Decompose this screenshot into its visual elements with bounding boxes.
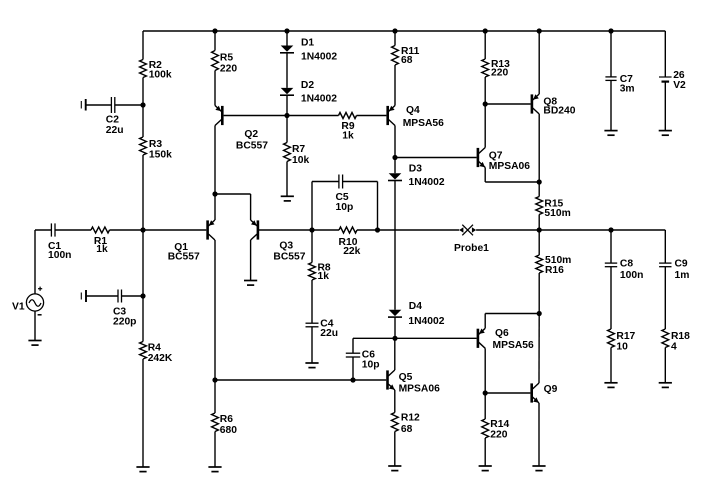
wire R4 bottom lead (142, 359, 144, 467)
svg-text:C8: C8 (620, 259, 633, 270)
label R1 value (94, 236, 108, 255)
svg-text:R4: R4 (148, 342, 161, 353)
probe Probe1 left arrow (459, 227, 463, 232)
resistor R1 (91, 227, 110, 233)
label C2 value (106, 114, 124, 135)
label R17 value (616, 331, 635, 352)
node rail/D1 (284, 28, 289, 33)
battery V2 short plate (662, 80, 670, 82)
svg-text:1k: 1k (342, 131, 354, 142)
transistor Q1 BC557 (206, 220, 215, 240)
node output/C8 (608, 227, 613, 232)
label R12 value (401, 413, 420, 435)
wire to Q8 base (485, 103, 530, 105)
svg-text:C9: C9 (675, 259, 688, 270)
wire R13 top lead (484, 31, 486, 59)
wire R10 to probe (357, 229, 459, 231)
wire to Q7 base (395, 157, 477, 159)
wire R2 top lead (142, 31, 144, 60)
wire D2 cathode to base row (286, 95, 288, 115)
resistor R8 (309, 263, 316, 281)
transistor Q4 MPSA56 (386, 106, 395, 126)
wire C5 right leg (377, 182, 379, 231)
resistor R17 (608, 329, 615, 348)
label Q5 (399, 372, 440, 394)
node Q1c/R6 (212, 377, 217, 382)
label C5 value (336, 192, 354, 213)
resistor R16 (536, 255, 543, 273)
ground under Q9 (532, 466, 545, 471)
label V1 plus (38, 287, 42, 291)
label Q1 (168, 242, 200, 263)
wire C6 top lead (352, 338, 354, 353)
resistor R13 (482, 59, 489, 77)
wire Q9 collector up (538, 314, 540, 384)
resistor R15 (536, 197, 543, 215)
wire Q1 emitter up (214, 194, 216, 220)
capacitor C5 (339, 175, 343, 189)
diode D3 1N4002 (388, 173, 402, 180)
capacitor C6 (346, 353, 360, 357)
svg-text:D4: D4 (409, 301, 422, 312)
wire V1 to C1 (35, 229, 51, 231)
wire Q1 collector down (214, 240, 216, 380)
wire C8 top lead (610, 230, 612, 263)
resistor R18 (662, 329, 669, 348)
capacitor C4 (306, 323, 319, 327)
label R2 value (149, 60, 172, 80)
wire C9 top lead (664, 230, 666, 263)
svg-text:1k: 1k (96, 244, 108, 255)
resistor R14 (482, 419, 489, 438)
svg-text:22k: 22k (343, 246, 360, 257)
svg-text:Probe1: Probe1 (454, 243, 489, 254)
label C4 value (320, 318, 338, 339)
wire R11 top lead (394, 31, 396, 46)
wire V1 top lead (34, 230, 36, 294)
transistor Q6 MPSA56 (477, 328, 486, 348)
wire R6 top lead (214, 380, 216, 413)
label Probe1 (454, 243, 489, 254)
svg-text:C2: C2 (106, 114, 119, 125)
label Q7 (489, 151, 530, 173)
wire R17 bottom lead (610, 348, 612, 383)
label R3 value (149, 139, 172, 160)
svg-text:Q6: Q6 (495, 328, 509, 339)
transistor Q8 BD240 (531, 94, 540, 114)
svg-text:3m: 3m (620, 84, 635, 95)
wire D1 anode lead (286, 31, 288, 46)
node Q8c/R15/Q7e (537, 179, 542, 184)
wire Q8 collector down (538, 114, 540, 182)
svg-text:22u: 22u (106, 125, 124, 136)
wire Q7 emitter to R15 node (485, 181, 539, 183)
wire V2 bottom lead (664, 82, 666, 131)
wire Q6 emitter to R16 node (485, 313, 539, 315)
node diff pair tail (212, 191, 217, 196)
label D3 (409, 163, 445, 188)
svg-text:220: 220 (220, 63, 237, 74)
capacitor C1 (51, 223, 55, 236)
resistor R12 (391, 413, 398, 432)
svg-text:D3: D3 (409, 163, 422, 174)
svg-text:1N4002: 1N4002 (409, 177, 445, 188)
wire R5 top lead (214, 31, 216, 51)
svg-text:R7: R7 (292, 144, 305, 155)
svg-text:4: 4 (671, 341, 677, 352)
ground under R12 (388, 466, 401, 471)
wire C6 bottom lead (352, 357, 354, 380)
svg-text:V2: V2 (673, 80, 686, 91)
wire C9 to R18 (664, 267, 666, 329)
label D4 (408, 301, 444, 327)
wire C2 right lead (115, 104, 143, 106)
label R7 value (292, 144, 309, 166)
wire Q7 emitter down (484, 168, 486, 183)
svg-text:1N4002: 1N4002 (301, 94, 337, 105)
diode D2 1N4002 (280, 88, 294, 95)
label C9 value (675, 259, 690, 281)
node C6 bottom (350, 377, 355, 382)
svg-text:MPSA06: MPSA06 (489, 161, 530, 172)
label V2 (673, 70, 686, 91)
transistor Q3 BC557 (251, 220, 260, 240)
label Q6 (493, 328, 534, 351)
node D4/Q5c/Q6b (392, 336, 397, 341)
node R2/R3/C2 junction (140, 102, 145, 107)
wire Q3 base to feedback node (258, 229, 312, 231)
transistor Q5 MPSA06 (386, 370, 395, 390)
terminal tick C2 inner (85, 99, 87, 111)
resistor R6 (212, 413, 219, 432)
wire V2 top lead (664, 31, 666, 77)
wire probe to output caps (476, 229, 665, 231)
svg-text:BD240: BD240 (543, 106, 575, 117)
svg-text:100k: 100k (149, 69, 172, 80)
wire R2-R3 (142, 78, 144, 138)
wire R8 to C4 (311, 280, 313, 323)
transistor Q7 MPSA06 (477, 148, 486, 168)
node R16/Q6e/Q9c (537, 311, 542, 316)
wire C1 to R1 (55, 229, 91, 231)
label R13 value (491, 59, 510, 78)
capacitor C2 (111, 97, 114, 113)
svg-text:100n: 100n (620, 270, 643, 281)
svg-text:1k: 1k (318, 271, 330, 282)
diode D1 1N4002 (280, 46, 294, 53)
svg-text:MPSA56: MPSA56 (493, 340, 534, 351)
resistor R10 (339, 227, 357, 233)
label R9 value (341, 121, 354, 142)
wire input node down to C3 node (142, 230, 144, 296)
svg-text:220: 220 (490, 429, 507, 440)
capacitor C8 (605, 263, 617, 267)
node Q4c/D3/Q7b (392, 155, 397, 160)
wire Q3 emitter vertical (250, 194, 252, 220)
terminal tick C3 inner (85, 290, 87, 302)
label D2 (301, 80, 337, 105)
node rail/R11 (392, 28, 397, 33)
svg-text:Q3: Q3 (279, 240, 293, 251)
wire C3 right lead (122, 295, 144, 297)
svg-text:Q7: Q7 (489, 151, 503, 162)
label C7 value (620, 74, 635, 94)
ground under R7 (281, 196, 294, 201)
wire R15 top lead (538, 182, 540, 197)
label Q9 (544, 384, 558, 395)
resistor R4 (140, 342, 147, 360)
wire to Q9 base (485, 392, 530, 394)
resistor R9 (339, 113, 357, 119)
wire D4 cathode lead (394, 317, 396, 338)
wire Q6 collector down (484, 348, 486, 393)
svg-text:22u: 22u (320, 328, 338, 339)
node Q6c/R14/Q9b (483, 390, 488, 395)
battery V2 long plate (659, 76, 672, 78)
label C6 value (362, 350, 380, 371)
label V1 (12, 302, 25, 313)
wire Q5 emitter to R12 (394, 390, 396, 413)
svg-text:D2: D2 (301, 80, 314, 91)
node D2/R7/base junction (284, 113, 289, 118)
ground under V1 (28, 341, 41, 346)
wire Q2 base row (224, 115, 339, 117)
wire R15 bottom lead (538, 215, 540, 231)
label R5 value (220, 53, 237, 75)
capacitor C7 (605, 77, 616, 81)
wire R11 to Q4 emitter (394, 65, 396, 106)
wire R7 bottom lead (286, 162, 288, 197)
node rail/R5 (212, 28, 217, 33)
wire R16 bottom lead (538, 273, 540, 314)
probe Probe1 cross (462, 225, 473, 236)
probe Probe1 right arrow (472, 227, 476, 232)
wire R5 to Q2 emitter (214, 71, 216, 106)
wire R12 bottom lead (394, 432, 396, 467)
svg-text:510m: 510m (544, 208, 570, 219)
label C8 value (620, 259, 643, 281)
wire Q8 emitter up (538, 31, 540, 94)
node output row R15/R16 (537, 227, 542, 232)
svg-text:1N4002: 1N4002 (408, 316, 444, 327)
node R10/C5 (375, 227, 380, 232)
wire C7 top lead (610, 31, 612, 77)
source V1 circle (26, 294, 43, 311)
resistor R3 (140, 137, 147, 155)
node input bias junction (140, 227, 145, 232)
label Q8 (543, 97, 575, 117)
label R11 value (401, 46, 420, 66)
wire to R7 (286, 116, 288, 143)
diode D4 1N4002 (388, 310, 402, 317)
svg-text:D1: D1 (301, 38, 314, 49)
label R14 value (490, 419, 509, 440)
wire Q9 emitter down (538, 403, 540, 466)
svg-text:1m: 1m (675, 270, 690, 281)
label R15 value (544, 198, 570, 219)
resistor R7 (284, 143, 291, 162)
ground under R18 (659, 383, 672, 388)
wire Q3 collector down (250, 240, 252, 281)
node rail/C7 (608, 28, 613, 33)
wire C7 bottom lead (610, 80, 612, 130)
wire R18 bottom lead (664, 348, 666, 383)
wire C8 to R17 (610, 267, 612, 329)
svg-text:1N4002: 1N4002 (301, 52, 337, 63)
svg-text:R6: R6 (220, 414, 233, 425)
terminal tick C3 outer (80, 293, 82, 300)
node rail/R13 (483, 28, 488, 33)
wire Q7 collector up (484, 104, 486, 148)
wire C5 top left (312, 181, 339, 183)
svg-text:BC557: BC557 (236, 141, 268, 152)
svg-text:10p: 10p (336, 202, 354, 213)
wire R14 top lead (484, 393, 486, 419)
wire C5 top right (343, 181, 378, 183)
wire Q6 base row (353, 337, 477, 339)
svg-text:R16: R16 (545, 265, 564, 276)
svg-text:Q5: Q5 (399, 372, 413, 383)
svg-text:Q9: Q9 (544, 384, 558, 395)
label C3 value (113, 307, 136, 328)
svg-text:R5: R5 (220, 53, 233, 64)
wire R3 bottom to input node (142, 155, 144, 230)
svg-text:242K: 242K (148, 353, 173, 364)
ground under R6 (208, 467, 221, 472)
ground under V2 (659, 131, 672, 136)
label D1 (301, 38, 337, 63)
label V1 minus (38, 314, 42, 316)
wire D3 anode lead (394, 158, 396, 174)
ground under R14 (479, 466, 492, 471)
terminal tick C2 outer (80, 101, 82, 109)
label R4 value (148, 342, 173, 364)
svg-text:BC557: BC557 (168, 252, 200, 263)
capacitor C9 (659, 263, 671, 267)
wire R16 top lead (538, 230, 540, 255)
wire Q4 collector down (394, 126, 396, 158)
wire node to R10 (312, 229, 339, 231)
ground under R4 (136, 467, 149, 472)
wire C5 left leg (311, 182, 313, 231)
wire Q1 collector to Q5 base (215, 379, 386, 381)
wire R8 top lead (311, 230, 313, 263)
label Q4 (403, 105, 444, 129)
label Q2 (236, 129, 268, 152)
wire R14 bottom lead (484, 438, 486, 466)
svg-text:100n: 100n (48, 250, 71, 261)
wire Q5 collector up (394, 338, 396, 370)
svg-text:220p: 220p (113, 317, 136, 328)
wire Q6 emitter up (484, 314, 486, 329)
svg-text:R12: R12 (401, 413, 420, 424)
svg-text:10k: 10k (292, 155, 309, 166)
wire R6 bottom lead (214, 432, 216, 468)
wire C4 bottom lead (311, 327, 313, 363)
svg-text:Q2: Q2 (244, 129, 258, 140)
wire D1-D2 (286, 53, 288, 88)
node rail/Q8 emitter (537, 28, 542, 33)
capacitor C3 (118, 290, 122, 303)
transistor Q2 BC557 (215, 106, 224, 126)
label R10 value (339, 237, 361, 257)
wire C2 left lead (86, 104, 112, 106)
wire Q2 collector down (214, 126, 216, 195)
svg-text:MPSA56: MPSA56 (403, 118, 444, 129)
transistor Q9 (530, 383, 539, 403)
svg-text:10p: 10p (362, 359, 380, 370)
svg-text:V1: V1 (12, 302, 25, 313)
node R3/R4/C3 junction (140, 293, 145, 298)
label R8 value (318, 263, 331, 283)
resistor R11 (392, 46, 399, 66)
wire C3 left lead (86, 295, 118, 297)
svg-text:MPSA06: MPSA06 (399, 384, 440, 395)
wire top +26V supply rail (143, 30, 665, 32)
wire D3 to D4 (crosses output row) (394, 181, 396, 310)
wire R13 bottom lead (484, 77, 486, 104)
svg-text:Q4: Q4 (406, 105, 420, 116)
wire tail to Q3 emitter (215, 193, 251, 195)
wire C3 node to R4 (142, 296, 144, 342)
source V1 sine (29, 300, 41, 307)
svg-text:68: 68 (401, 424, 413, 435)
svg-text:BC557: BC557 (273, 251, 305, 262)
ground under R17 (604, 383, 617, 388)
wire R1 to Q1 base (110, 229, 207, 231)
label C1 value (48, 241, 71, 261)
wire R9 to Q4 base (357, 115, 387, 117)
ground under C4 (305, 363, 318, 368)
resistor R2 (140, 60, 147, 78)
node R13/Q8 base (483, 101, 488, 106)
label R16 value (545, 255, 571, 276)
svg-text:680: 680 (220, 425, 237, 436)
label R6 value (220, 414, 237, 436)
label Q3 (273, 240, 305, 262)
svg-text:150k: 150k (149, 149, 172, 160)
node Q3 base/R8/C5 (309, 227, 314, 232)
svg-text:10: 10 (616, 341, 628, 352)
wire V1 bottom lead (34, 311, 36, 340)
label R18 value (671, 331, 690, 352)
ground under C7 (604, 131, 617, 136)
resistor R5 (212, 51, 219, 71)
ground under Q3 (244, 281, 257, 286)
svg-text:68: 68 (401, 55, 413, 66)
svg-text:220: 220 (491, 68, 508, 79)
